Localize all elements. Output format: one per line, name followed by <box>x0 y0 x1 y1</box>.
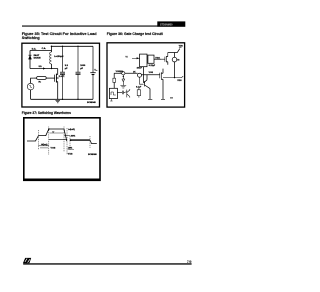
svg-text:0.22μF: 0.22μF <box>149 65 156 67</box>
svg-text:t d(on): t d(on) <box>41 143 48 146</box>
svg-text:V DS: V DS <box>68 154 73 156</box>
svg-text:SC08080: SC08080 <box>88 154 98 156</box>
svg-text:t d(off): t d(off) <box>68 128 75 131</box>
svg-text:L=150μH: L=150μH <box>54 56 64 58</box>
svg-text:10%: 10% <box>68 148 72 150</box>
svg-text:V GG: V GG <box>155 57 160 59</box>
svg-text:D.U.T.: D.U.T. <box>59 76 65 78</box>
svg-text:0.1μF: 0.1μF <box>136 87 142 89</box>
svg-text:Rₖ: Rₖ <box>39 82 42 84</box>
svg-text:C.A.: C.A. <box>42 47 47 50</box>
svg-text:100nF: 100nF <box>137 67 143 69</box>
svg-text:Figure 36: Gate Charge test Ci: Figure 36: Gate Charge test Circuit <box>107 32 164 36</box>
svg-text:t r: t r <box>53 130 55 133</box>
svg-text:V GS: V GS <box>149 72 154 74</box>
svg-text:DIODE: DIODE <box>34 58 41 60</box>
svg-text:V₂₂: V₂₂ <box>94 69 97 71</box>
svg-text:90%: 90% <box>71 136 75 138</box>
svg-text:V GS: V GS <box>51 148 56 150</box>
svg-text:STD5NM50: STD5NM50 <box>160 23 173 26</box>
svg-text:7/9: 7/9 <box>187 260 192 264</box>
svg-text:V DS: V DS <box>177 80 182 82</box>
svg-text:SC08040: SC08040 <box>87 101 97 104</box>
svg-text:Figure 37: Switching Waveforms: Figure 37: Switching Waveforms <box>22 111 71 115</box>
svg-text:D.A.: D.A. <box>32 47 37 50</box>
svg-text:Switching: Switching <box>22 36 41 40</box>
svg-text:V DD: V DD <box>179 46 184 48</box>
svg-text:V GS(th): V GS(th) <box>116 70 124 73</box>
svg-text:S.S.: S.S. <box>39 66 43 68</box>
